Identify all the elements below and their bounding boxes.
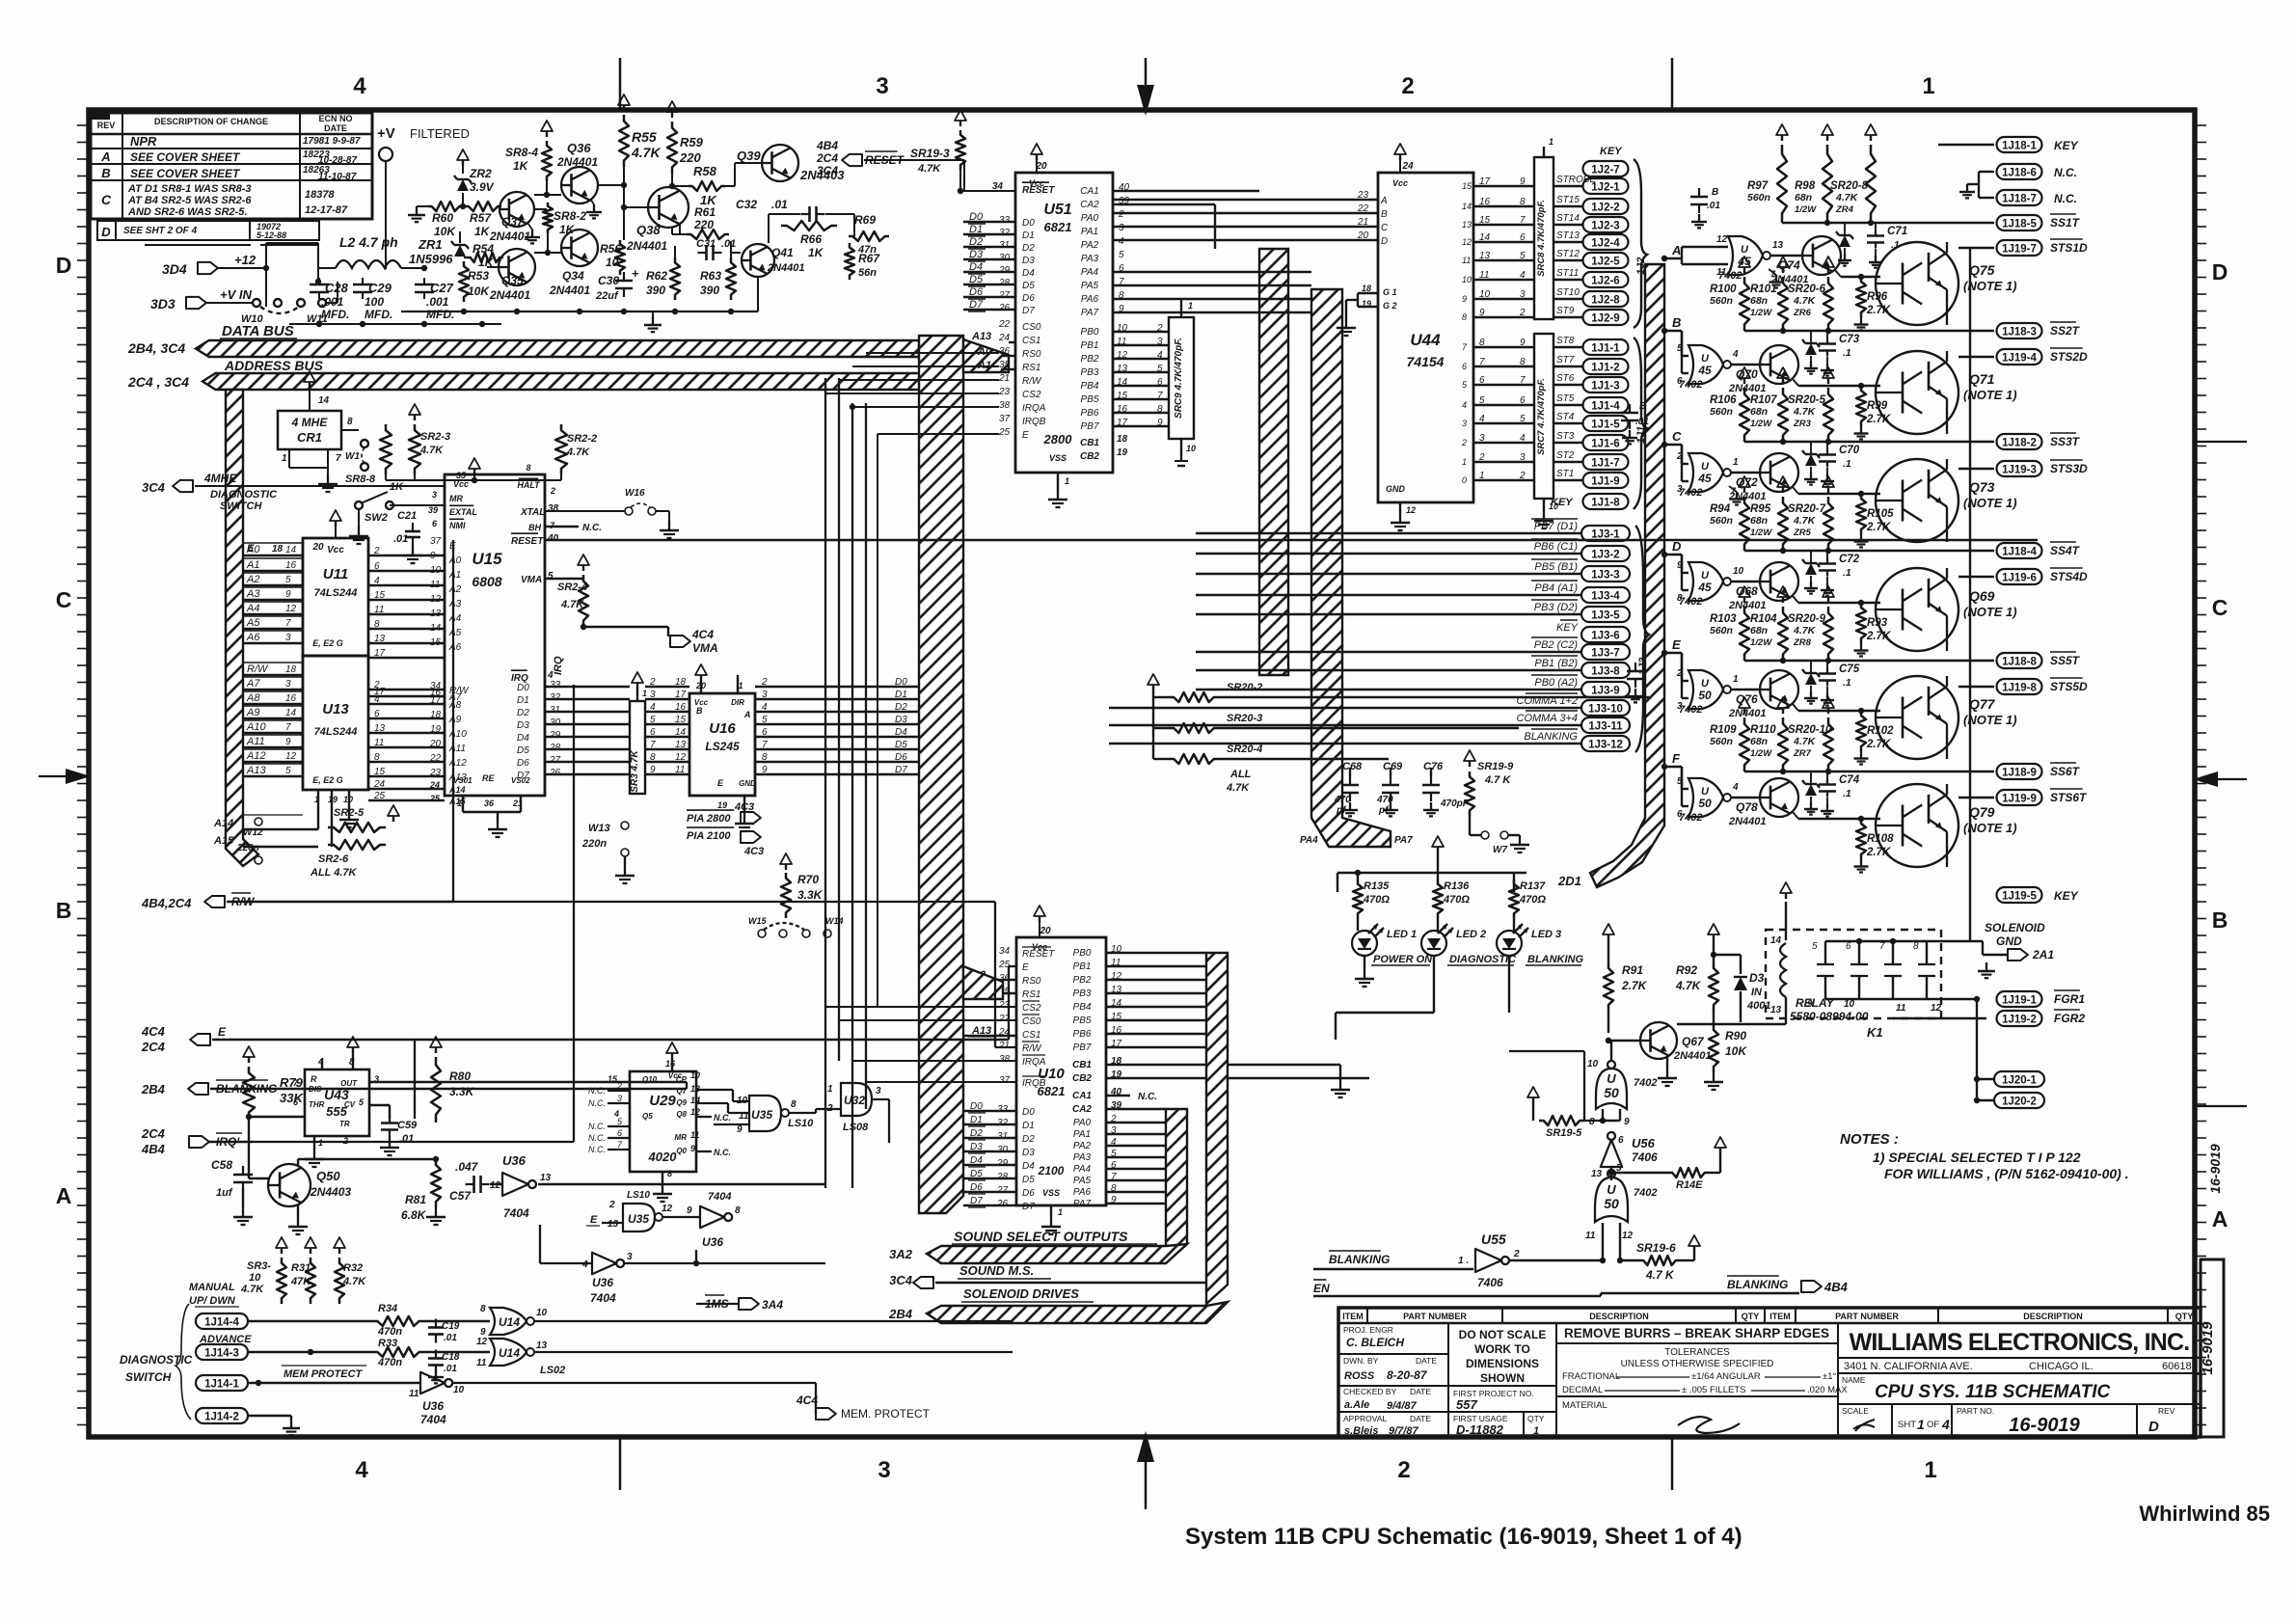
- svg-text:D: D: [2148, 1419, 2159, 1435]
- svg-text:D5: D5: [517, 745, 529, 756]
- connector 1J1-5: [1583, 416, 1629, 431]
- svg-text:A2: A2: [448, 584, 462, 595]
- svg-text:MFD.: MFD.: [321, 308, 349, 321]
- svg-text:7404: 7404: [708, 1191, 731, 1203]
- IC U13 74LS244: [303, 656, 368, 790]
- svg-text:SEE SHT 2 OF 4: SEE SHT 2 OF 4: [123, 226, 198, 236]
- svg-text:4: 4: [650, 702, 656, 713]
- svg-text:SS5T: SS5T: [2050, 654, 2081, 667]
- svg-text:31: 31: [550, 705, 560, 716]
- svg-text:19: 19: [717, 800, 727, 810]
- svg-text:SR3-: SR3-: [247, 1260, 271, 1272]
- svg-text:1J2-2: 1J2-2: [1591, 203, 1619, 214]
- svg-text:13: 13: [374, 634, 386, 644]
- svg-text:COMMA 3+4: COMMA 3+4: [1517, 713, 1578, 724]
- svg-text:B: B: [1381, 209, 1388, 220]
- svg-text:2C4: 2C4: [816, 151, 838, 165]
- svg-text:1J2-8: 1J2-8: [1591, 295, 1620, 307]
- bus stub to U10 A signals: [963, 966, 1003, 999]
- svg-text:1: 1: [738, 681, 743, 690]
- wire SR20-2 right: [1219, 696, 1649, 698]
- svg-text:D6: D6: [1022, 293, 1035, 304]
- svg-text:6: 6: [650, 727, 656, 738]
- relay top bus: [1825, 940, 1927, 942]
- mid arrow left: [66, 769, 91, 784]
- row5 misc cap B .01: [1634, 663, 1636, 671]
- svg-text:50: 50: [1698, 689, 1712, 702]
- svg-text:A3: A3: [448, 599, 462, 609]
- svg-text:5: 5: [762, 715, 768, 725]
- svg-text:3: 3: [285, 633, 291, 643]
- svg-text:220: 220: [693, 218, 714, 231]
- svg-text:SEE COVER SHEET: SEE COVER SHEET: [130, 150, 241, 164]
- svg-text:ST2: ST2: [1556, 450, 1575, 461]
- svg-text:470Ω: 470Ω: [1443, 894, 1470, 906]
- svg-text:A11: A11: [448, 744, 466, 754]
- svg-text:.01: .01: [771, 198, 788, 211]
- U51 right pins CA PA: [1080, 182, 1129, 318]
- svg-text:390: 390: [700, 284, 719, 297]
- svg-text:FILTERED: FILTERED: [410, 126, 470, 141]
- crystal CR1: [278, 411, 341, 449]
- wire RW route: [453, 901, 995, 903]
- svg-text:4.7 K: 4.7 K: [1645, 1268, 1675, 1282]
- svg-text:SR20-7: SR20-7: [1788, 503, 1826, 515]
- wire bottom rail: [289, 323, 501, 325]
- wire emitter to big transistor: [1793, 596, 1798, 603]
- svg-text:1J3-1: 1J3-1: [1591, 529, 1620, 541]
- svg-text:STS4D: STS4D: [2050, 570, 2088, 583]
- svg-text:R14E: R14E: [1676, 1179, 1703, 1191]
- svg-text:1 .: 1 .: [1458, 1256, 1469, 1266]
- svg-text:R69: R69: [854, 213, 876, 227]
- svg-text:ZR8: ZR8: [1793, 637, 1812, 648]
- svg-text:3: 3: [627, 1252, 633, 1262]
- svg-text:U13: U13: [322, 701, 349, 717]
- svg-text:1J2-4: 1J2-4: [1591, 238, 1620, 250]
- transistor Q37: [500, 192, 534, 227]
- svg-text:D5: D5: [1022, 1175, 1035, 1185]
- svg-text:D7: D7: [969, 299, 984, 311]
- svg-text:CS2: CS2: [1022, 1003, 1041, 1014]
- svg-text:220n: 220n: [581, 838, 607, 850]
- svg-text:ST14: ST14: [1556, 213, 1580, 224]
- svg-text:5: 5: [1520, 414, 1526, 424]
- XTAL wire W16: [545, 510, 625, 512]
- connector key bus band: [1259, 249, 1288, 675]
- svg-text:E: E: [1672, 637, 1681, 652]
- svg-text:PART NUMBER: PART NUMBER: [1403, 1312, 1467, 1321]
- svg-text:2: 2: [1478, 452, 1485, 463]
- svg-text:9: 9: [762, 765, 768, 775]
- svg-text:SR2-4: SR2-4: [557, 582, 587, 593]
- svg-text:U35: U35: [751, 1108, 772, 1122]
- svg-text:38: 38: [999, 400, 1011, 411]
- wire gate to transistor: [1731, 472, 1760, 474]
- svg-text:18: 18: [1362, 284, 1371, 293]
- svg-text:14: 14: [1462, 202, 1472, 211]
- connector 1J3-9: [1581, 682, 1630, 697]
- svg-text:HALT: HALT: [517, 480, 541, 490]
- svg-text:13: 13: [675, 740, 687, 750]
- svg-text:D1: D1: [895, 690, 907, 700]
- svg-text:D: D: [1672, 539, 1682, 554]
- svg-text:SS3T: SS3T: [2050, 435, 2081, 448]
- svg-text:SWITCH: SWITCH: [220, 501, 262, 512]
- svg-text:8-20-87: 8-20-87: [1387, 1368, 1428, 1382]
- svg-text:4: 4: [1732, 782, 1739, 793]
- wire emitter to big transistor: [1835, 270, 1841, 277]
- svg-text:LED 2: LED 2: [1456, 929, 1486, 940]
- svg-text:NMI: NMI: [449, 521, 466, 530]
- U10 data pins: [963, 1101, 1035, 1212]
- svg-text:C59: C59: [397, 1120, 418, 1131]
- svg-text:2: 2: [373, 546, 380, 556]
- svg-text:A: A: [56, 1183, 72, 1208]
- relay K1 dashed box: [1766, 930, 1941, 1018]
- svg-text:N.C.: N.C.: [588, 1086, 606, 1096]
- svg-text:15: 15: [430, 637, 442, 648]
- svg-text:20: 20: [429, 739, 442, 749]
- svg-text:SWITCH: SWITCH: [125, 1370, 172, 1384]
- svg-text:16: 16: [675, 702, 687, 713]
- svg-text:5: 5: [1677, 776, 1683, 787]
- zener ZR3: [1810, 442, 1812, 453]
- resistor SR20-7 4.7K: [1827, 487, 1829, 493]
- svg-text:3A4: 3A4: [762, 1298, 783, 1312]
- svg-text:UP/ DWN: UP/ DWN: [189, 1295, 236, 1307]
- svg-text:3: 3: [762, 690, 768, 700]
- svg-text:Q37: Q37: [501, 215, 525, 229]
- svg-text:7: 7: [336, 453, 341, 464]
- svg-text:2N4401: 2N4401: [1728, 816, 1767, 827]
- svg-text:2B4, 3C4: 2B4, 3C4: [127, 340, 185, 356]
- resistor SR20-8 4.7K: [1870, 135, 1872, 141]
- svg-text:RESET: RESET: [1022, 949, 1055, 960]
- VMA flag 4C4: [670, 636, 690, 647]
- svg-text:PB0: PB0: [1073, 948, 1092, 959]
- jumper W1: [361, 440, 368, 447]
- svg-text:U35: U35: [628, 1212, 649, 1226]
- svg-text:31: 31: [997, 1131, 1008, 1142]
- svg-text:FGR2: FGR2: [2054, 1012, 2085, 1025]
- row3 misc cap B .01: [1629, 404, 1631, 413]
- svg-text:CB2: CB2: [1080, 451, 1099, 462]
- resistor R135 470: [1353, 880, 1363, 918]
- BH NC: [545, 526, 579, 528]
- svg-text:1: 1: [1058, 1207, 1063, 1217]
- svg-text:8: 8: [480, 1304, 486, 1314]
- svg-text:10: 10: [1462, 275, 1472, 284]
- svg-text:VS02: VS02: [511, 776, 530, 785]
- svg-text:19: 19: [1117, 447, 1128, 458]
- svg-text:16: 16: [1479, 197, 1491, 207]
- svg-text:ST1: ST1: [1556, 469, 1574, 479]
- resistor SR20-4: [1169, 754, 1219, 764]
- svg-text:D1: D1: [1022, 1121, 1035, 1131]
- svg-text:1: 1: [1188, 301, 1193, 311]
- svg-text:ZR6: ZR6: [1793, 308, 1812, 318]
- svg-text:N.C.: N.C.: [714, 1113, 731, 1123]
- svg-text:2N4401: 2N4401: [489, 288, 530, 302]
- svg-text:21: 21: [998, 1041, 1010, 1051]
- transistor Q73 TIP122: [1876, 459, 1958, 542]
- svg-text:18: 18: [272, 544, 284, 555]
- svg-text:R58: R58: [693, 164, 717, 178]
- svg-text:±1/64 ANGULAR: ±1/64 ANGULAR: [1691, 1371, 1761, 1382]
- svg-text:R106: R106: [1710, 394, 1737, 406]
- svg-text:1: 1: [1533, 1425, 1539, 1437]
- svg-text:2N4401: 2N4401: [489, 230, 530, 243]
- wire emitter to big transistor: [1793, 704, 1798, 711]
- svg-text:24: 24: [373, 779, 386, 790]
- svg-text:17: 17: [1479, 176, 1491, 187]
- svg-text:U16: U16: [709, 720, 736, 737]
- svg-text:R91: R91: [1622, 963, 1643, 977]
- svg-text:SS4T: SS4T: [2050, 544, 2081, 557]
- capacitor C30: [623, 272, 625, 281]
- svg-text:560n: 560n: [1710, 406, 1733, 418]
- connector 1J3-7: [1581, 644, 1630, 660]
- resistor R66: [781, 221, 837, 230]
- svg-text:11: 11: [1896, 1003, 1906, 1014]
- svg-text:14: 14: [285, 708, 297, 718]
- svg-text:30: 30: [550, 717, 561, 728]
- U51 PA4-PA7 wires: [1113, 272, 1311, 312]
- svg-text:26: 26: [549, 768, 561, 778]
- svg-text:C21: C21: [397, 510, 417, 522]
- svg-text:1K: 1K: [513, 159, 529, 173]
- svg-text:33: 33: [997, 1104, 1009, 1115]
- svg-text:SEE COVER SHEET: SEE COVER SHEET: [130, 167, 241, 180]
- svg-text:LS10: LS10: [627, 1190, 650, 1201]
- svg-text:4.7K: 4.7K: [1793, 295, 1817, 307]
- transistor Q77 TIP122: [1876, 676, 1958, 759]
- svg-text:39: 39: [428, 505, 438, 515]
- svg-text:A4: A4: [246, 603, 259, 614]
- svg-text:14: 14: [285, 545, 297, 555]
- svg-text:A: A: [1671, 243, 1681, 257]
- U51 left pins: [963, 211, 1035, 316]
- svg-text:560n: 560n: [1710, 736, 1733, 747]
- svg-text:11: 11: [374, 605, 384, 615]
- svg-text:9: 9: [1624, 1117, 1630, 1127]
- svg-text:26: 26: [998, 303, 1011, 313]
- IC U44 74154: [1378, 173, 1473, 502]
- connector 1J18-8: [1744, 660, 1994, 662]
- svg-text:1J1-4: 1J1-4: [1591, 401, 1620, 413]
- wire Q35 Q34: [534, 252, 561, 254]
- resistor R57: [465, 202, 501, 211]
- svg-text:8: 8: [347, 417, 353, 427]
- svg-text:D1: D1: [969, 224, 983, 235]
- wire gate to transistor: [1731, 581, 1760, 582]
- LED3: [1497, 931, 1522, 956]
- svg-text:4: 4: [762, 702, 768, 713]
- svg-text:10K: 10K: [1725, 1044, 1747, 1058]
- svg-text:1J19-4: 1J19-4: [2002, 353, 2037, 365]
- resistor R67: [845, 243, 854, 280]
- resistor R31 47K: [310, 1248, 311, 1254]
- svg-text:1J20-2: 1J20-2: [2002, 1096, 2037, 1108]
- resistor R53: [459, 261, 469, 302]
- svg-text:APPROVAL: APPROVAL: [1343, 1414, 1387, 1423]
- svg-text:PA7: PA7: [1081, 308, 1099, 318]
- svg-text:C31: C31: [696, 238, 716, 250]
- jumper W10: [253, 299, 260, 307]
- svg-text:R61: R61: [694, 205, 716, 219]
- svg-text:1/2W: 1/2W: [1750, 419, 1772, 429]
- svg-text:10: 10: [690, 1070, 700, 1080]
- svg-text:B: B: [1672, 315, 1681, 330]
- svg-text:2N4401: 2N4401: [1728, 600, 1767, 611]
- jumper W11: [297, 299, 305, 307]
- relay contact row 11 12 wire: [1893, 1017, 1986, 1019]
- svg-text:PB1: PB1: [1073, 961, 1092, 972]
- resistor R95 68: [1782, 487, 1784, 493]
- node C: [1661, 442, 1667, 447]
- IC U29 4020: [630, 1071, 696, 1172]
- svg-text:U51: U51: [1043, 202, 1071, 218]
- svg-text:D7: D7: [1022, 306, 1035, 316]
- svg-text:ITEM: ITEM: [1342, 1312, 1364, 1321]
- svg-text:9/4/87: 9/4/87: [1387, 1400, 1417, 1412]
- resistor R92 4.7K: [1713, 934, 1715, 940]
- svg-text:12: 12: [675, 752, 687, 763]
- svg-text:1: 1: [318, 1138, 323, 1148]
- svg-text:3A2: 3A2: [889, 1247, 913, 1261]
- wire U36a out: [538, 1183, 825, 1185]
- zener ZR4: [1844, 223, 1846, 234]
- svg-text:U36: U36: [592, 1276, 613, 1289]
- resistor R62: [670, 257, 680, 300]
- capacitor C31: [698, 252, 707, 254]
- svg-text:PA2: PA2: [1081, 240, 1099, 251]
- svg-text:1J2-9: 1J2-9: [1591, 313, 1619, 325]
- svg-text:W14: W14: [825, 916, 844, 926]
- svg-text:2: 2: [616, 1081, 622, 1091]
- svg-text:Q8: Q8: [676, 1110, 687, 1119]
- svg-text:PB4: PB4: [1073, 1002, 1092, 1013]
- svg-text:27: 27: [998, 290, 1011, 301]
- wire gate to transistor: [1770, 255, 1802, 257]
- svg-text:SR2-5: SR2-5: [334, 807, 365, 819]
- svg-text:220: 220: [679, 150, 701, 165]
- svg-text:ITEM: ITEM: [1769, 1312, 1791, 1321]
- svg-text:1K: 1K: [808, 246, 824, 259]
- svg-text:33: 33: [999, 215, 1011, 226]
- svg-text:17981 9-9-87: 17981 9-9-87: [303, 136, 361, 147]
- svg-text:13: 13: [430, 609, 442, 619]
- svg-text:2.7K: 2.7K: [1866, 522, 1891, 533]
- svg-text:7402: 7402: [1679, 704, 1702, 716]
- svg-text:D3: D3: [969, 249, 984, 260]
- svg-text:CP: CP: [676, 1075, 688, 1084]
- resistor R14E: [1668, 1168, 1709, 1177]
- svg-text:50: 50: [1604, 1085, 1619, 1100]
- svg-text:THR: THR: [309, 1100, 325, 1109]
- svg-text:1J3-5: 1J3-5: [1591, 610, 1620, 622]
- svg-text:2: 2: [1519, 471, 1526, 481]
- svg-text:N.C.: N.C.: [714, 1148, 731, 1157]
- svg-text:5580-08994-00: 5580-08994-00: [1790, 1010, 1869, 1023]
- nor gate U45: [1688, 562, 1723, 601]
- svg-text:U36: U36: [422, 1399, 444, 1413]
- svg-text:2B4: 2B4: [141, 1082, 166, 1096]
- connector 1J1-2: [1583, 359, 1629, 374]
- svg-text:1J1-7: 1J1-7: [1591, 458, 1619, 470]
- resistor R100 560: [1743, 267, 1745, 273]
- svg-text:D3: D3: [970, 1142, 983, 1152]
- svg-text:6: 6: [1520, 395, 1526, 406]
- svg-text:2N4401: 2N4401: [1673, 1050, 1712, 1062]
- svg-text:7406: 7406: [1632, 1150, 1658, 1164]
- svg-text:38: 38: [999, 1054, 1011, 1065]
- svg-text:2800: 2800: [1043, 432, 1073, 447]
- svg-text:PA7: PA7: [1394, 835, 1413, 846]
- svg-text:21: 21: [1357, 217, 1368, 228]
- svg-text:R34: R34: [378, 1303, 397, 1314]
- connector 1J18-5: [1782, 222, 1994, 224]
- svg-text:1: 1: [282, 453, 287, 464]
- svg-text:U: U: [1607, 1071, 1616, 1086]
- svg-text:U36: U36: [502, 1153, 527, 1168]
- svg-text:VS01: VS01: [453, 776, 473, 785]
- svg-text:IRQA: IRQA: [1022, 1057, 1046, 1068]
- svg-text:U14: U14: [499, 1346, 520, 1360]
- svg-text:1/2W: 1/2W: [1750, 528, 1772, 538]
- svg-text:2: 2: [1397, 1457, 1410, 1483]
- resistor R98 68: [1826, 135, 1828, 141]
- do not scale cell: [1448, 1385, 1556, 1387]
- svg-text:3D4: 3D4: [162, 261, 187, 277]
- svg-text:4: 4: [1119, 236, 1124, 247]
- svg-text:11: 11: [1479, 270, 1489, 281]
- connector 1J3-5: [1581, 607, 1630, 622]
- resistor R70 3.3K: [785, 864, 787, 870]
- svg-text:RS1: RS1: [1022, 989, 1040, 1000]
- title header row: [1338, 1322, 2201, 1325]
- svg-text:A1: A1: [977, 360, 991, 371]
- transistor Q39: [762, 145, 798, 181]
- svg-text:ST7: ST7: [1556, 355, 1575, 365]
- svg-text:9: 9: [1677, 560, 1683, 571]
- svg-text:34: 34: [999, 946, 1011, 957]
- relay contact row 9 10 wire: [1825, 998, 1859, 1000]
- svg-text:8: 8: [1157, 404, 1163, 415]
- resistor SR8-4: [546, 131, 548, 137]
- svg-text:.1: .1: [1843, 677, 1851, 689]
- capacitor C73: [1826, 331, 1828, 340]
- svg-text:R70: R70: [797, 873, 819, 886]
- U11 U13 address input rows: [243, 543, 303, 776]
- svg-text:PB1: PB1: [1081, 340, 1099, 351]
- svg-text:FGR1: FGR1: [2054, 992, 2085, 1006]
- svg-text:1J18-1: 1J18-1: [2002, 141, 2037, 152]
- svg-text:7402: 7402: [1679, 379, 1702, 391]
- connector 1J3-12: [1581, 736, 1630, 751]
- svg-text:R107: R107: [1750, 394, 1777, 406]
- svg-text:3: 3: [1119, 223, 1124, 233]
- wire emitter to big transistor: [1793, 379, 1798, 386]
- connector 1J14-3: [196, 1344, 248, 1360]
- transistor Q78: [1760, 778, 1798, 817]
- svg-text:SOLENOID DRIVES: SOLENOID DRIVES: [963, 1286, 1079, 1301]
- IC U11 74LS244: [303, 538, 368, 656]
- U29 NC labels: [588, 1081, 630, 1154]
- svg-text:Q7: Q7: [676, 1087, 687, 1096]
- wire R62 R63 tops: [674, 246, 676, 257]
